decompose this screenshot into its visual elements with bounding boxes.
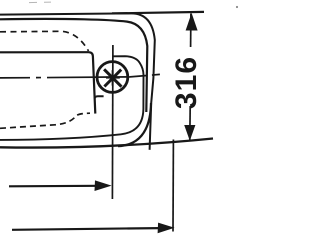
- bulb hole circle: [97, 62, 128, 93]
- center mark star diagonal 2: [104, 70, 121, 87]
- recess contour line left of hole: [0, 52, 95, 113]
- scan speck top left: [29, 1, 51, 4]
- neck contour around bulb hole: [113, 56, 144, 134]
- scan speck top right: [236, 6, 238, 8]
- 316 dimension bottom arrowhead: [184, 125, 195, 141]
- housing outer bottom edge extended as extension line: [0, 139, 213, 148]
- small step contour below hole: [95, 96, 104, 98]
- vertical centerline through hole extended to lower dimension: [111, 45, 114, 199]
- housing outer bottom-right corner arc: [118, 103, 151, 146]
- center mark bold horizontal spoke: [106, 76, 120, 78]
- lower dimension 2 extension line: [172, 140, 174, 232]
- center mark star diagonal 1: [104, 69, 121, 86]
- inner flange outline top and right: [0, 19, 147, 112]
- svg-text:316: 316: [170, 56, 203, 109]
- 316 dimension line upper segment: [190, 14, 192, 48]
- horizontal centerline through hole: [0, 74, 165, 78]
- lower dimension 1 line: [9, 185, 98, 188]
- hidden gasket dashed bottom: [0, 113, 90, 128]
- housing outer outline top edge and right side: [0, 13, 155, 149]
- top edge extension line for 316 dimension: [112, 12, 204, 14]
- center mark bold vertical spoke: [112, 70, 114, 85]
- inner flange bottom edge: [0, 134, 121, 140]
- lower dimension 2 line: [12, 228, 160, 230]
- lower dimension 1 arrowhead: [95, 180, 112, 191]
- lower dimension 2 arrowhead: [158, 223, 175, 234]
- 316 dimension top arrowhead: [186, 13, 198, 31]
- hidden gasket dashed top: [0, 31, 89, 51]
- 316 dimension line lower segment: [189, 106, 191, 140]
